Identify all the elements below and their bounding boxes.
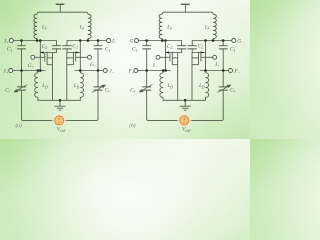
current arrow on left jog wire (a) xyxy=(40,51,43,53)
wire top node row right (b) xyxy=(192,40,232,42)
top supply rail wire (a) xyxy=(37,12,88,14)
svg-text:C1: C1 xyxy=(7,47,13,53)
junction dot LD-left/mid-row (b) xyxy=(162,69,165,72)
svg-text:Cv: Cv xyxy=(130,88,135,93)
wire C2-left jog (b) xyxy=(166,49,182,53)
wire right source column (b) xyxy=(191,53,193,101)
capacitor C2 right (a) xyxy=(62,46,71,49)
source ground rail (b) xyxy=(163,97,205,100)
junction dot varactor-right/mid-row (b) xyxy=(222,69,225,72)
svg-text:C1: C1 xyxy=(132,47,138,53)
varactor CV right (a) xyxy=(92,86,104,93)
tuning voltage source Vctrl (a) xyxy=(52,113,67,128)
svg-text:Cv: Cv xyxy=(230,88,235,93)
junction dot LS-left/top-row (a) xyxy=(36,39,39,42)
wire LS-right to drain node (b) xyxy=(212,39,214,41)
wire drain leg right (b) xyxy=(205,41,207,71)
svg-text:LS: LS xyxy=(41,25,47,30)
junction dot C1-right/top-row (a) xyxy=(97,39,100,42)
junction dot ground rail (b) xyxy=(184,99,187,102)
current arrow on right jog wire (b) xyxy=(201,51,204,53)
junction dot varactor-right/mid-row (a) xyxy=(97,69,100,72)
junction dot LS-right/top-row (a) xyxy=(87,39,90,42)
svg-text:Cv: Cv xyxy=(5,88,10,93)
wire LD-left top stem (b) xyxy=(162,71,164,73)
inductor LD left (b) xyxy=(160,73,163,98)
svg-text:(a): (a) xyxy=(16,122,22,129)
inductor LD left (a) xyxy=(35,73,38,98)
capacitor C1 right (b) xyxy=(219,46,228,49)
svg-text:C1: C1 xyxy=(230,47,236,53)
junction dot drain-leg-left/top-row (a) xyxy=(39,39,42,42)
wire varactor-right top stem (b) xyxy=(222,71,224,87)
svg-text:I+: I+ xyxy=(214,62,220,68)
wire C2-left jog (a) xyxy=(40,49,56,53)
wire drain leg left (a) xyxy=(39,41,41,71)
wire mid node row left (b) xyxy=(138,70,171,72)
junction dot varactor-left/mid-row (b) xyxy=(145,69,148,72)
wire varactor-right top stem (a) xyxy=(97,71,99,87)
gate terminal I− (b) xyxy=(156,55,160,59)
svg-text:J−: J− xyxy=(109,68,114,74)
svg-text:I−: I− xyxy=(111,38,117,44)
svg-text:F−: F− xyxy=(234,68,241,74)
ground stem wire (a) xyxy=(59,100,61,106)
varactor CV left (b) xyxy=(141,85,153,92)
junction dot drain-leg-right/mid-row (a) xyxy=(79,69,82,72)
ground symbol (a) xyxy=(55,106,66,110)
gate terminal G− (a) xyxy=(88,55,92,59)
svg-text:G−: G− xyxy=(90,62,97,68)
svg-text:C2: C2 xyxy=(167,44,173,50)
ground symbol (b) xyxy=(180,106,191,110)
svg-text:LD: LD xyxy=(198,84,205,89)
capacitor C1 right (a) xyxy=(94,46,103,49)
wire left source column (a) xyxy=(52,53,54,101)
VDD stem wire (b) xyxy=(184,5,186,13)
svg-text:C1: C1 xyxy=(105,47,111,53)
terminal G− (b) xyxy=(232,39,236,43)
svg-text:LD: LD xyxy=(167,84,174,89)
wire LD-right top stem (a) xyxy=(79,71,81,73)
svg-text:Vctrl: Vctrl xyxy=(57,127,66,133)
tuning voltage source Vctrl (b) xyxy=(177,113,192,128)
svg-text:LD: LD xyxy=(73,84,80,89)
wire C1-left top stem (a) xyxy=(21,41,23,46)
wire LS-right to drain node (a) xyxy=(87,39,89,41)
svg-text:J+: J+ xyxy=(3,68,8,74)
wire C2-right jog (a) xyxy=(67,49,80,53)
svg-text:(b): (b) xyxy=(129,122,135,129)
junction dot C1-right/top-row (b) xyxy=(222,39,225,42)
wire C1-right top stem (a) xyxy=(97,41,99,46)
svg-text:G+: G+ xyxy=(28,63,35,69)
wire top node row left (b) xyxy=(139,40,182,42)
VDD supply bar (b) xyxy=(181,3,190,5)
junction dot drain-leg-left/mid-row (b) xyxy=(164,69,167,72)
inductor LD right (b) xyxy=(206,73,209,98)
gate terminal I+ (b) xyxy=(213,55,217,59)
inductor LS left (a) xyxy=(34,14,37,38)
wire mid node row right (b) xyxy=(200,70,229,72)
capacitor C1 left (b) xyxy=(142,46,151,49)
source ground rail (a) xyxy=(38,97,80,100)
junction dot LS-left/top-row (b) xyxy=(161,39,164,42)
wire right source column (a) xyxy=(66,53,68,101)
junction dot LD-left/mid-row (a) xyxy=(37,69,40,72)
transistor M2 (a) xyxy=(67,52,88,65)
wire mid node row left (a) xyxy=(13,70,46,72)
junction dot drain-leg-left/mid-row (a) xyxy=(39,69,42,72)
wire LD-left top stem (a) xyxy=(37,71,39,73)
junction dot LS-right/top-row (b) xyxy=(212,39,215,42)
transistor M1 (a) xyxy=(35,52,53,65)
polarity marks of source (b) xyxy=(183,118,185,123)
wire drain leg right (a) xyxy=(79,41,81,71)
wire C1-right bottom stem (a) xyxy=(97,49,99,71)
svg-text:I−: I− xyxy=(152,63,158,69)
capacitor C2 left (b) xyxy=(177,46,186,49)
terminal J− (a) xyxy=(103,69,107,73)
svg-text:LD: LD xyxy=(41,84,48,89)
junction dot drain-leg-left/top-row (b) xyxy=(164,39,167,42)
varactor CV right (b) xyxy=(217,86,229,93)
terminal G+ (b) xyxy=(135,39,139,43)
wire LS-left to drain node (a) xyxy=(36,39,38,41)
ground stem wire (b) xyxy=(184,100,186,106)
wire C2-left top stem (b) xyxy=(181,41,183,46)
junction dot C1-left/top-row (b) xyxy=(145,39,148,42)
polarity marks of source (a) xyxy=(58,118,60,123)
wire C1-right top stem (b) xyxy=(222,41,224,46)
junction dot ground rail (a) xyxy=(59,99,62,102)
wire varactor-left top stem (b) xyxy=(146,71,148,87)
svg-text:C2: C2 xyxy=(42,44,48,50)
svg-text:LS: LS xyxy=(166,25,172,30)
svg-text:F+: F+ xyxy=(128,68,135,74)
wire C2-right top stem (b) xyxy=(191,41,193,46)
wire C2-right jog (b) xyxy=(192,49,205,53)
svg-text:C2: C2 xyxy=(72,43,78,49)
junction dot drain-leg-right/top-row (b) xyxy=(204,39,207,42)
wire C1-left top stem (b) xyxy=(146,41,148,46)
wire LD-right top stem (b) xyxy=(205,71,207,73)
inductor LD right (a) xyxy=(80,73,83,98)
inductor LS right (b) xyxy=(213,14,216,38)
svg-text:I+: I+ xyxy=(3,38,9,44)
capacitor C2 left (a) xyxy=(52,46,61,49)
terminal F+ (b) xyxy=(134,69,138,73)
wire C1-left bottom stem (b) xyxy=(146,49,148,71)
terminal J+ (a) xyxy=(9,69,13,73)
wire top node row right (a) xyxy=(67,40,107,42)
junction dot drain-leg-right/top-row (a) xyxy=(79,39,82,42)
terminal F− (b) xyxy=(229,69,233,73)
capacitor C2 right (b) xyxy=(188,46,197,49)
varactor CV left (a) xyxy=(16,85,28,92)
wire LS-left to drain node (b) xyxy=(161,39,163,41)
wire C2-left top stem (a) xyxy=(56,41,58,46)
inductor LS left (b) xyxy=(159,14,162,38)
inductor LS right (a) xyxy=(88,14,91,38)
wire varactor-right to tuning source (b) xyxy=(189,90,224,120)
svg-text:LS: LS xyxy=(79,25,85,30)
svg-text:G−: G− xyxy=(237,38,244,44)
current arrow on right jog wire (a) xyxy=(76,51,79,53)
gate terminal G+ (a) xyxy=(31,55,35,59)
wire C1-right bottom stem (b) xyxy=(222,49,224,71)
junction dot C1-left/top-row (a) xyxy=(20,39,23,42)
wire top node row left (a) xyxy=(13,40,56,42)
wire left source column (b) xyxy=(177,53,179,101)
svg-text:Vctrl: Vctrl xyxy=(182,127,191,133)
transistor M2 (b) xyxy=(192,52,213,65)
svg-text:C2: C2 xyxy=(198,43,204,49)
wire varactor-left to tuning source (a) xyxy=(22,90,55,120)
svg-text:LS: LS xyxy=(204,25,210,30)
terminal I+ (a) xyxy=(9,39,13,43)
terminal I− (a) xyxy=(107,39,111,43)
junction dot drain-leg-right/mid-row (b) xyxy=(204,69,207,72)
wire C1-left bottom stem (a) xyxy=(21,49,23,71)
wire C2-right top stem (a) xyxy=(66,41,68,46)
top supply rail wire (b) xyxy=(162,12,213,14)
current arrow on left jog wire (b) xyxy=(166,51,169,53)
wire varactor-left top stem (a) xyxy=(21,71,23,87)
VDD stem wire (a) xyxy=(59,5,61,13)
wire varactor-left to tuning source (b) xyxy=(147,90,180,120)
svg-text:Cv: Cv xyxy=(105,88,110,93)
wire varactor-right to tuning source (a) xyxy=(63,90,98,120)
junction dot varactor-left/mid-row (a) xyxy=(20,69,23,72)
VDD supply bar (a) xyxy=(56,3,65,5)
wire mid node row right (a) xyxy=(75,70,104,72)
capacitor C1 left (a) xyxy=(17,46,26,49)
wire drain leg left (b) xyxy=(165,41,167,71)
transistor M1 (b) xyxy=(160,52,178,65)
